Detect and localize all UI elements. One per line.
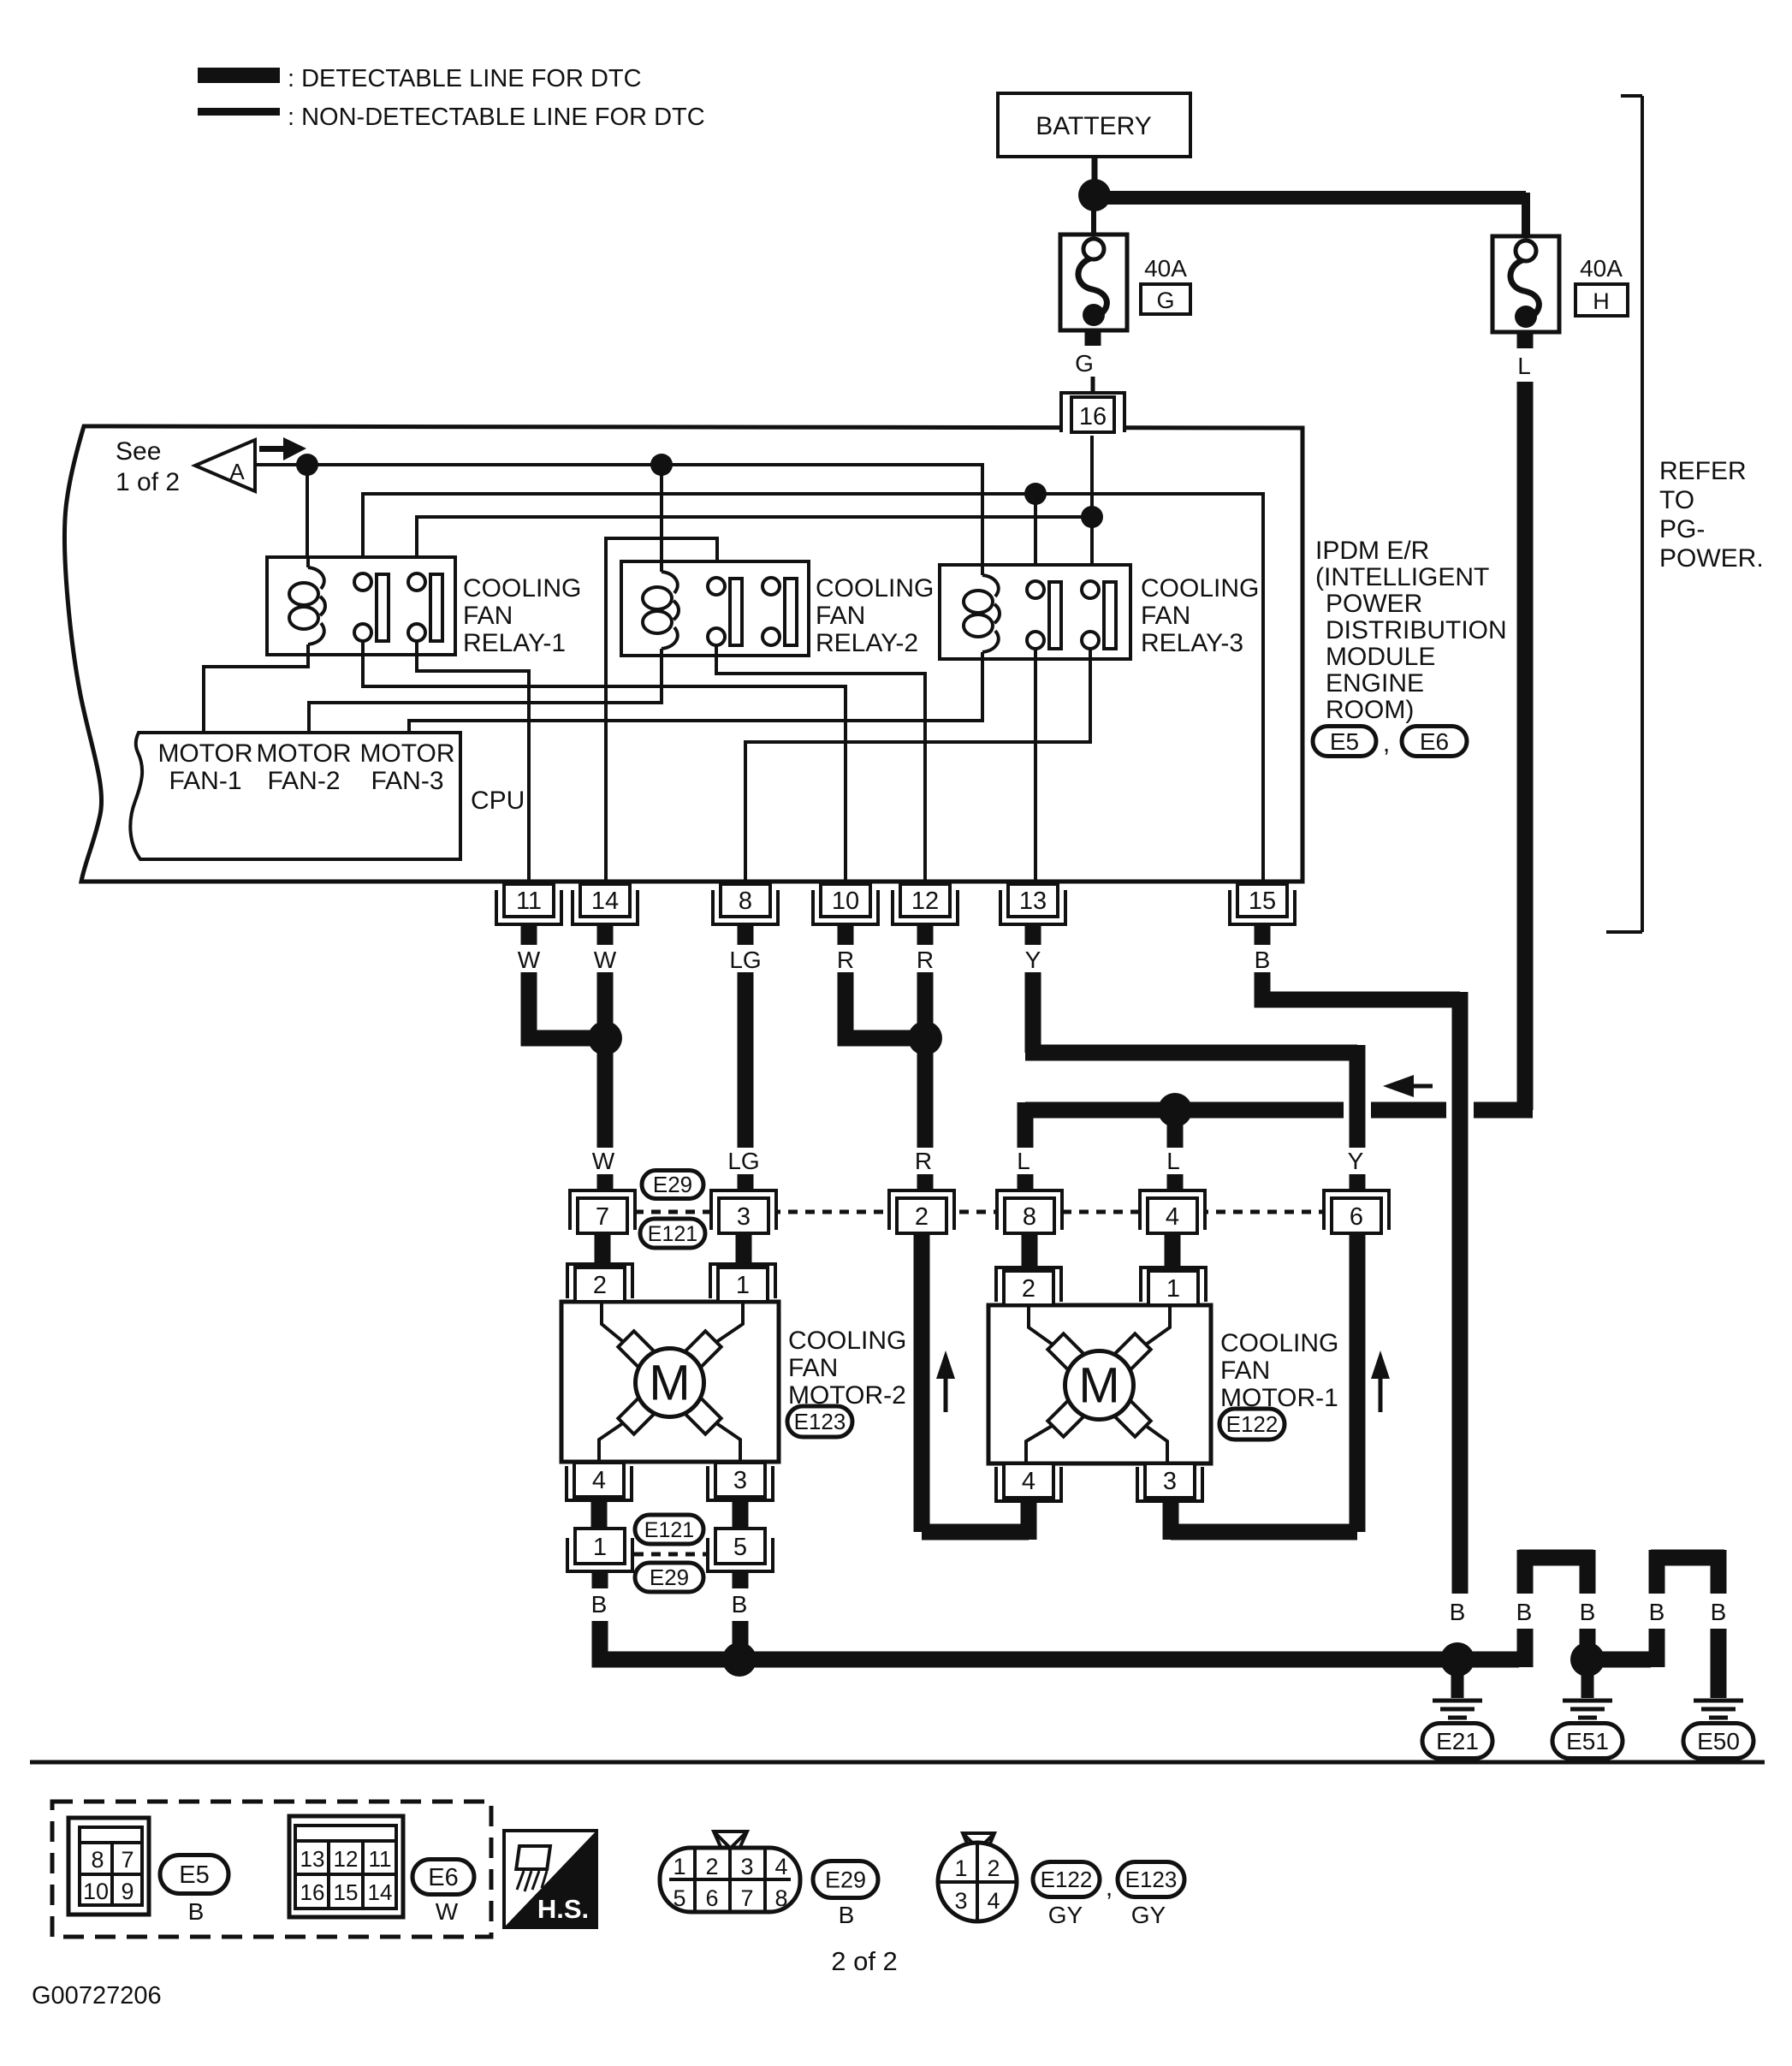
connector tag E6	[1402, 727, 1467, 757]
svg-text:ROOM): ROOM)	[1326, 696, 1414, 724]
svg-text:B: B	[188, 1898, 205, 1925]
svg-text:FAN: FAN	[1220, 1357, 1270, 1385]
wire relay-1 contact1 to pin 10	[363, 641, 846, 884]
svg-text:TO: TO	[1659, 486, 1694, 514]
svg-text:12: 12	[334, 1846, 359, 1872]
svg-text:M: M	[1078, 1358, 1119, 1414]
junction line2 relay-3 contact1	[1024, 483, 1047, 505]
junction battery feed	[1078, 179, 1111, 211]
wire dashed connector E121/E29 mating line	[634, 1552, 706, 1557]
pin 12 (IPDM bottom terminal)	[893, 884, 958, 924]
wire connector pin 8 to motor-1 pin 2	[1022, 1233, 1038, 1268]
wire battery feed to fuse H (horizontal)	[1095, 191, 1526, 205]
wire stub below pin (W)	[597, 924, 614, 945]
svg-text:ENGINE: ENGINE	[1326, 669, 1424, 698]
wire R connector pin 2 down to motor-1 pin 4 (bottom route)	[922, 1233, 1029, 1540]
svg-text:W: W	[594, 947, 617, 973]
svg-text:MOTOR: MOTOR	[256, 739, 351, 768]
connector tag E121 (upper)	[640, 1219, 705, 1248]
wire line1 drop to relay-1 coil	[306, 465, 309, 557]
connector E121/E29 pin 1	[567, 1529, 632, 1571]
svg-text:FAN: FAN	[816, 602, 865, 630]
pin 3 (motor-2)	[708, 1463, 773, 1500]
svg-text:RELAY-1: RELAY-1	[463, 629, 566, 657]
connector tag E5	[1313, 727, 1376, 757]
label COOLING FAN RELAY-2	[816, 574, 934, 657]
svg-text:7: 7	[121, 1847, 134, 1873]
svg-text:A: A	[229, 459, 245, 484]
svg-text:FAN: FAN	[788, 1354, 838, 1382]
svg-text:E21: E21	[1436, 1728, 1479, 1754]
svg-text:15: 15	[1249, 888, 1276, 915]
label COOLING FAN MOTOR-2	[788, 1327, 906, 1410]
wire line1 drop to relay-2 coil	[660, 465, 663, 561]
label COOLING FAN MOTOR-1	[1220, 1329, 1338, 1412]
svg-text:W: W	[518, 947, 541, 973]
svg-text:1: 1	[1166, 1275, 1180, 1303]
junction B wires at bus	[722, 1642, 757, 1677]
svg-text:G: G	[1156, 288, 1174, 313]
svg-text:7: 7	[740, 1885, 753, 1911]
svg-text:COOLING: COOLING	[463, 574, 581, 603]
wire relay-1 coil to CPU FAN-1	[204, 644, 308, 733]
relay R1 (COOLING FAN RELAY-1)	[267, 557, 455, 655]
svg-text:H: H	[1593, 288, 1610, 314]
wire connector pin 3 to motor-2 pin 1	[736, 1233, 752, 1264]
svg-text:B: B	[1450, 1599, 1466, 1625]
wire L horizontal (with crossing breaks)	[1025, 1102, 1533, 1119]
svg-text:E122: E122	[1041, 1867, 1093, 1892]
wire E21 dot to ground	[1451, 1673, 1464, 1698]
connector E29/E121 pin 2	[889, 1190, 954, 1233]
connector E121/E29 pin 5	[708, 1529, 773, 1571]
pin 11 (IPDM bottom terminal)	[496, 884, 561, 924]
wire R pin 12 down to connector E29 pin 2	[917, 972, 934, 1190]
connector face E29 (2x4 oval grid)	[660, 1831, 800, 1912]
svg-text:B: B	[839, 1902, 855, 1928]
svg-text:10: 10	[832, 888, 859, 915]
connector tag E29 (upper)	[642, 1171, 703, 1199]
wire hump2 over (B)	[1651, 1550, 1724, 1698]
pin 3 (motor-1)	[1137, 1463, 1202, 1501]
arrow direction (up) on R wire	[936, 1351, 955, 1379]
svg-text:6: 6	[1350, 1203, 1363, 1231]
wire line1 node A to relay coils	[255, 465, 982, 575]
junction relay-2 coil feed	[650, 454, 673, 476]
svg-text:8: 8	[774, 1885, 787, 1911]
svg-text:40A: 40A	[1580, 255, 1623, 282]
wire B pin 15 to ground bus (long)	[1262, 972, 1460, 1594]
bracket refer to PG-POWER	[1606, 96, 1642, 932]
svg-text:,: ,	[1106, 1873, 1113, 1902]
wire junction to fuse G	[1091, 210, 1096, 236]
wire motor-2 pin 3 to connector E121 pin 5	[733, 1500, 749, 1530]
wire W pin 14 down to connector E29 pin 7	[597, 972, 614, 1190]
svg-text:B: B	[1255, 947, 1271, 973]
wire relay-3 contact2 to pin 8	[745, 649, 1090, 884]
svg-text:BATTERY: BATTERY	[1035, 112, 1152, 140]
svg-text:DISTRIBUTION: DISTRIBUTION	[1326, 616, 1507, 644]
wire Y connector pin 6 down to motor-1 pin 3 (bottom route)	[1171, 1233, 1357, 1540]
wire E51 dot to ground	[1581, 1673, 1594, 1698]
wire fuse G output (G)	[1085, 330, 1101, 393]
svg-text:E123: E123	[1125, 1867, 1178, 1892]
svg-text:COOLING: COOLING	[816, 574, 934, 603]
pin 2 (motor-1)	[996, 1268, 1061, 1305]
battery B+ (BATTERY)	[998, 93, 1190, 157]
svg-text:E121: E121	[644, 1518, 694, 1542]
pin 2 (motor-2)	[567, 1264, 632, 1302]
svg-text:5: 5	[733, 1534, 747, 1561]
svg-text:MOTOR: MOTOR	[359, 739, 454, 768]
connector tag E123 (motor-2)	[787, 1406, 852, 1437]
wire connector pin 4 to motor-1 pin 1	[1165, 1233, 1181, 1268]
wire L fuse H down (thick)	[1517, 382, 1534, 1110]
label See 1 of 2	[116, 437, 180, 496]
svg-text:4: 4	[1022, 1468, 1035, 1495]
svg-text:PG-: PG-	[1659, 515, 1705, 543]
svg-text:3: 3	[733, 1467, 747, 1494]
svg-text:14: 14	[591, 888, 619, 915]
junction L wire branch	[1158, 1093, 1192, 1127]
connector tag E122 (motor-1)	[1219, 1409, 1285, 1440]
wire fuse H output stub	[1517, 332, 1534, 348]
svg-text:4: 4	[774, 1854, 787, 1879]
svg-text:11: 11	[516, 888, 542, 915]
wire L down to connector E29 pin 8	[1018, 1102, 1034, 1190]
ground E50 symbol	[1694, 1701, 1743, 1718]
svg-text:LG: LG	[727, 1148, 759, 1174]
svg-text:2 of 2: 2 of 2	[831, 1946, 898, 1976]
svg-text:11: 11	[369, 1846, 392, 1872]
svg-text:10: 10	[83, 1879, 109, 1904]
svg-text:,: ,	[1383, 729, 1390, 757]
svg-text:G00727206: G00727206	[32, 1982, 162, 2010]
svg-text:FAN: FAN	[463, 602, 513, 630]
svg-text:FAN-1: FAN-1	[169, 767, 241, 795]
wire stub below pin (LG)	[738, 924, 754, 945]
wire relay-2 coil to CPU FAN-2	[309, 649, 662, 733]
svg-text:L: L	[1017, 1148, 1030, 1174]
connector E29/E121 pin 4	[1140, 1190, 1205, 1233]
svg-text:2: 2	[987, 1855, 1000, 1881]
svg-text:1: 1	[736, 1272, 750, 1299]
wire R pin 10 to junction	[846, 972, 919, 1038]
svg-text:8: 8	[739, 888, 752, 915]
connector tag E5 (legend)	[160, 1855, 228, 1894]
svg-text:15: 15	[334, 1879, 359, 1905]
pin 1 (motor-2)	[710, 1264, 775, 1302]
svg-text:1: 1	[593, 1534, 607, 1561]
relay R3 (COOLING FAN RELAY-3)	[940, 565, 1130, 659]
fuse G (fusible link 40A)	[1060, 235, 1127, 330]
svg-text:2: 2	[705, 1854, 718, 1879]
wire ground bus horizontal	[600, 1652, 1457, 1659]
ground E51 symbol	[1563, 1701, 1612, 1718]
pin 10 (IPDM bottom terminal)	[813, 884, 878, 924]
svg-text:B: B	[732, 1591, 748, 1618]
label MOTOR FAN-3	[359, 739, 454, 795]
wire bridge pin14 to relay-2 contact1	[606, 538, 717, 884]
connector E29/E121 pin 6	[1324, 1190, 1389, 1233]
connector tag E122 (legend)	[1033, 1862, 1100, 1897]
svg-text:FAN-2: FAN-2	[267, 767, 340, 795]
label COOLING FAN RELAY-1	[463, 574, 581, 657]
wire B motor-2 pin1 side down	[592, 1571, 608, 1659]
svg-text:1 of 2: 1 of 2	[116, 468, 180, 496]
label MOTOR FAN-2	[256, 739, 351, 795]
svg-text:Y: Y	[1348, 1148, 1364, 1174]
wire battery to junction	[1092, 157, 1098, 181]
svg-text:E5: E5	[1330, 728, 1359, 755]
svg-text:3: 3	[737, 1203, 751, 1231]
pin 4 (motor-1)	[996, 1463, 1061, 1501]
svg-text:2: 2	[1022, 1275, 1035, 1303]
svg-text:B: B	[1649, 1599, 1665, 1625]
wire line2 relay-1 contact1 to relay-3 contact1 and pin 15	[363, 494, 1263, 884]
svg-text:13: 13	[1019, 888, 1047, 915]
connector E29/E121 pin 7	[570, 1190, 635, 1233]
pin 8 (IPDM bottom terminal)	[713, 884, 778, 924]
svg-text:G: G	[1075, 350, 1094, 377]
svg-text:2: 2	[593, 1272, 607, 1299]
svg-text:13: 13	[300, 1846, 325, 1872]
svg-text:POWER.: POWER.	[1659, 544, 1764, 573]
label MOTOR FAN-1	[157, 739, 252, 795]
pin 1 (motor-1)	[1141, 1268, 1206, 1305]
svg-text:REFER: REFER	[1659, 457, 1747, 485]
junction W wires	[588, 1021, 622, 1055]
connector tag E6 (legend)	[412, 1860, 474, 1895]
svg-text:W: W	[436, 1898, 459, 1925]
connector face E5 (2x2 grid)	[68, 1818, 149, 1915]
wire stub below pin (W)	[521, 924, 537, 945]
svg-text:E51: E51	[1566, 1728, 1609, 1754]
ground tag E50	[1683, 1724, 1753, 1759]
svg-text:E122: E122	[1226, 1411, 1279, 1437]
connector tag E123 (legend)	[1118, 1862, 1184, 1897]
pin 13 (IPDM bottom terminal)	[1000, 884, 1065, 924]
svg-text:14: 14	[368, 1879, 393, 1905]
svg-text:B: B	[1711, 1599, 1727, 1625]
svg-text:9: 9	[121, 1879, 134, 1904]
junction ground E51	[1570, 1642, 1605, 1677]
connector E29/E121 pin 3	[711, 1190, 776, 1233]
wire stub below pin (B)	[1255, 924, 1271, 945]
wire drop line2 to relay-3 contact1	[1034, 494, 1037, 579]
svg-text:B: B	[591, 1591, 608, 1618]
svg-text:RELAY-2: RELAY-2	[816, 629, 918, 657]
svg-text:3: 3	[1163, 1468, 1177, 1495]
motor M1 (COOLING FAN MOTOR-1)	[988, 1305, 1211, 1463]
svg-text:16: 16	[300, 1879, 325, 1905]
svg-text:E29: E29	[825, 1867, 866, 1892]
svg-text:R: R	[837, 947, 854, 973]
svg-text:E6: E6	[428, 1864, 458, 1891]
relay R2 (COOLING FAN RELAY-2)	[621, 561, 809, 656]
wire pin 16 down to relay-3 contact2	[1090, 436, 1094, 579]
junction line3 pin16	[1081, 506, 1103, 528]
wire stub below pin (Y)	[1025, 924, 1041, 945]
wire hump1 over (B)	[1519, 1550, 1593, 1667]
svg-text:LG: LG	[729, 947, 761, 973]
ground tag E51	[1552, 1724, 1623, 1759]
junction ground E21	[1440, 1642, 1475, 1677]
svg-text:3: 3	[740, 1854, 753, 1879]
svg-text:CPU: CPU	[471, 787, 525, 815]
svg-text:B: B	[1516, 1599, 1533, 1625]
svg-text:See: See	[116, 437, 161, 466]
legend detectable-line sample (thick bar)	[198, 68, 280, 83]
svg-text:: NON-DETECTABLE LINE FOR DTC: : NON-DETECTABLE LINE FOR DTC	[288, 104, 705, 131]
svg-text:40A: 40A	[1144, 255, 1187, 282]
wire bus to hump1	[1451, 1652, 1519, 1668]
connector tag E29 (legend)	[813, 1861, 878, 1898]
wire Y pin 13 right and down to connector E29 pin 6	[1025, 972, 1357, 1190]
wire relay-3 coil to CPU FAN-3	[409, 652, 982, 733]
wire bus E51 to hump2	[1581, 1652, 1651, 1668]
svg-text:8: 8	[91, 1847, 104, 1873]
connector face E122/E123 (round 4-pin)	[938, 1833, 1017, 1921]
svg-text:FAN: FAN	[1141, 602, 1190, 630]
wire relay-3 contact1 to pin 13	[1034, 649, 1037, 884]
svg-text:12: 12	[911, 888, 939, 915]
svg-text:3: 3	[954, 1888, 967, 1914]
svg-text:E123: E123	[794, 1409, 846, 1434]
pin 15 (IPDM bottom terminal)	[1230, 884, 1295, 924]
connector tag E29 (lower)	[635, 1563, 703, 1592]
wire dashed connector E29/E121 mating line	[634, 1210, 1325, 1214]
svg-text:COOLING: COOLING	[1141, 574, 1259, 603]
connector tag E121 (lower)	[635, 1515, 703, 1544]
wire relay-1 contact2 to pin 11	[417, 641, 529, 884]
wire L branch down to connector E29 pin 4	[1167, 1110, 1184, 1190]
motor M2 (COOLING FAN MOTOR-2)	[561, 1302, 779, 1462]
svg-text:5: 5	[673, 1885, 685, 1911]
svg-text:E5: E5	[179, 1861, 209, 1889]
svg-text:: DETECTABLE LINE FOR DTC: : DETECTABLE LINE FOR DTC	[288, 65, 642, 92]
module CPU box (torn left edge)	[130, 733, 460, 859]
svg-text:POWER: POWER	[1326, 590, 1422, 618]
svg-text:(INTELLIGENT: (INTELLIGENT	[1315, 563, 1489, 591]
wire connector pin 7 to motor-2 pin 2	[595, 1233, 611, 1264]
svg-text:E50: E50	[1697, 1728, 1740, 1754]
pin 16 (IPDM top terminal)	[1061, 393, 1124, 432]
connector E29/E121 pin 8	[997, 1190, 1062, 1233]
svg-text:6: 6	[705, 1885, 718, 1911]
svg-text:B: B	[1580, 1599, 1596, 1625]
wire B motor-2 pin5 side down	[733, 1571, 749, 1647]
separator line	[30, 1760, 1765, 1765]
legend non-detectable line sample (thin bar)	[198, 108, 280, 116]
dashed group box (E5/E6 connectors)	[52, 1802, 491, 1937]
svg-text:M: M	[649, 1356, 690, 1411]
label COOLING FAN RELAY-3	[1141, 574, 1259, 657]
svg-text:7: 7	[596, 1203, 609, 1231]
svg-text:16: 16	[1079, 403, 1107, 430]
svg-text:COOLING: COOLING	[788, 1327, 906, 1355]
module IPDM E/R box outline (torn left edge)	[65, 426, 1302, 882]
svg-text:FAN-3: FAN-3	[371, 767, 443, 795]
junction relay-1 coil feed	[296, 454, 318, 476]
svg-text:GY: GY	[1048, 1902, 1083, 1928]
svg-text:COOLING: COOLING	[1220, 1329, 1338, 1357]
svg-text:MOTOR: MOTOR	[157, 739, 252, 768]
wire line3 relay-1 contact2 to pin16 drop	[417, 517, 1092, 573]
svg-text:8: 8	[1023, 1203, 1036, 1231]
wire LG pin 8 down to connector E29 pin 3	[738, 972, 754, 1190]
svg-text:E6: E6	[1420, 728, 1449, 755]
wire stub below pin (R)	[917, 924, 934, 945]
svg-text:L: L	[1166, 1148, 1180, 1174]
arrow direction (left) on L wire	[1383, 1075, 1433, 1097]
fuse H (fusible link 40A)	[1492, 236, 1559, 332]
connector face E6 (2x3 grid)	[289, 1816, 403, 1917]
svg-text:L: L	[1517, 353, 1531, 379]
svg-text:MODULE: MODULE	[1326, 643, 1435, 671]
pin 14 (IPDM bottom terminal)	[573, 884, 638, 924]
svg-text:2: 2	[915, 1203, 929, 1231]
arrow direction (right) at node A	[259, 437, 306, 460]
wire relay-2 contact1 to pin 12	[716, 645, 925, 884]
svg-text:R: R	[915, 1148, 932, 1174]
svg-text:Y: Y	[1025, 947, 1041, 973]
svg-text:R: R	[917, 947, 934, 973]
ground E21 symbol	[1433, 1701, 1482, 1718]
svg-text:E121: E121	[648, 1222, 697, 1246]
svg-text:E29: E29	[653, 1172, 692, 1197]
junction R wires	[908, 1021, 942, 1055]
wire stub below pin (R)	[838, 924, 854, 945]
svg-text:GY: GY	[1131, 1902, 1166, 1928]
svg-text:1: 1	[673, 1854, 685, 1879]
svg-text:E29: E29	[650, 1564, 689, 1590]
pin 4 (motor-2)	[567, 1463, 632, 1500]
svg-text:H.S.: H.S.	[537, 1894, 589, 1924]
wire down to fuse H	[1522, 193, 1530, 236]
ground tag E21	[1422, 1724, 1492, 1759]
wire W pin 11 to junction	[529, 972, 599, 1038]
arrow direction (up) on Y wire	[1371, 1351, 1390, 1379]
label REFER TO PG-POWER.	[1659, 457, 1764, 573]
svg-text:4: 4	[1166, 1203, 1179, 1231]
label box G	[1141, 284, 1190, 314]
node A (off-page connector triangle)	[195, 440, 255, 491]
label box H	[1575, 284, 1628, 316]
label IPDM E/R (INTELLIGENT POWER DISTRIBUTION MODULE ENGINE ROOM)	[1315, 537, 1507, 724]
svg-text:4: 4	[987, 1888, 1000, 1914]
svg-text:W: W	[592, 1148, 615, 1174]
svg-text:1: 1	[954, 1855, 967, 1881]
svg-text:RELAY-3: RELAY-3	[1141, 629, 1243, 657]
svg-text:4: 4	[592, 1467, 606, 1494]
wire relay-2 contact2 stub	[769, 561, 773, 578]
svg-text:IPDM E/R: IPDM E/R	[1315, 537, 1429, 565]
harness symbol H.S.	[504, 1831, 596, 1927]
wire motor-2 pin 4 to connector E121 pin 1	[591, 1500, 608, 1530]
